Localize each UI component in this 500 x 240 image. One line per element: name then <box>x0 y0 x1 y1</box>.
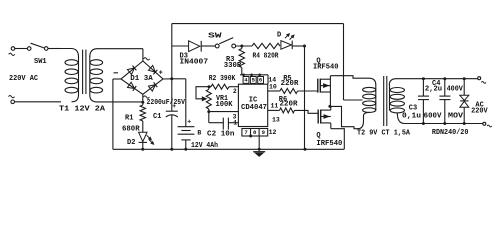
svg-text:IRF540: IRF540 <box>316 140 342 148</box>
svg-text:220R: 220R <box>281 80 300 88</box>
svg-text:+: + <box>187 119 191 126</box>
svg-text:+: + <box>159 70 163 78</box>
svg-text:220V: 220V <box>471 107 488 115</box>
svg-text:B: B <box>197 129 201 136</box>
svg-text:CD4047: CD4047 <box>241 104 267 112</box>
svg-text:330R: 330R <box>224 62 242 70</box>
svg-text:0,1u: 0,1u <box>402 113 421 121</box>
svg-text:IRF540: IRF540 <box>313 64 339 72</box>
svg-text:2,2u: 2,2u <box>425 86 442 94</box>
svg-text:7: 7 <box>244 129 247 136</box>
svg-text:C2 10n: C2 10n <box>207 130 234 138</box>
svg-text:RDN240/20: RDN240/20 <box>432 129 469 137</box>
svg-text:2: 2 <box>233 88 237 95</box>
svg-text:400V: 400V <box>447 86 464 94</box>
svg-text:600V: 600V <box>424 113 443 121</box>
svg-text:100K: 100K <box>216 101 234 109</box>
svg-text:11: 11 <box>271 103 279 110</box>
svg-text:680R: 680R <box>122 125 140 133</box>
svg-text:SW: SW <box>208 33 223 41</box>
svg-text:D2: D2 <box>127 139 135 147</box>
svg-text:D1 3A: D1 3A <box>130 75 153 83</box>
svg-text:R1: R1 <box>125 114 133 122</box>
svg-text:C3: C3 <box>409 105 417 113</box>
svg-text:2200uF/25V: 2200uF/25V <box>147 99 186 107</box>
svg-text:C1: C1 <box>153 113 161 121</box>
svg-text:10: 10 <box>269 83 277 90</box>
svg-text:T1 12V 2A: T1 12V 2A <box>59 105 106 113</box>
svg-text:R4 820R: R4 820R <box>253 53 280 61</box>
svg-text:T2 9V CT 1,5A: T2 9V CT 1,5A <box>357 130 411 138</box>
svg-text:12: 12 <box>269 129 277 136</box>
svg-text:13: 13 <box>272 117 280 124</box>
svg-text:D: D <box>277 32 281 40</box>
svg-text:MOV: MOV <box>448 113 464 121</box>
svg-text:R2 390K: R2 390K <box>209 75 236 83</box>
svg-text:220V AC: 220V AC <box>9 75 38 83</box>
svg-text:SW1: SW1 <box>34 58 47 66</box>
svg-text:IN4007: IN4007 <box>180 59 209 67</box>
svg-text:Q: Q <box>316 132 320 140</box>
svg-text:220R: 220R <box>280 101 299 109</box>
